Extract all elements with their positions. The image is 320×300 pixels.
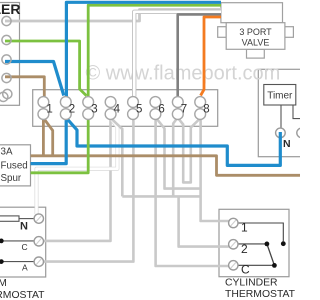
junction box (wiring centre) — [33, 90, 218, 127]
wire white: valve to junction terminal 5 — [134, 12, 221, 97]
cyl stat contact dot C — [272, 263, 277, 268]
boiler terminal 3 — [2, 55, 11, 64]
svg-text:N: N — [20, 221, 28, 233]
cyl stat contact dot 1 — [281, 241, 286, 246]
svg-text:3A: 3A — [1, 147, 13, 158]
timer terminal L (clipped) — [297, 128, 307, 138]
wire gray: junction terminal 7 to common rail — [173, 119, 177, 197]
terminal 8 — [195, 97, 206, 108]
svg-text:© www.flameport.com: © www.flameport.com — [86, 63, 281, 85]
wire blue: valve to junction terminal 2 — [66, 2, 221, 96]
cyl stat switch blade — [267, 244, 275, 266]
svg-text:N: N — [283, 138, 291, 150]
wire white: junction terminal 4 to room stat N — [37, 119, 118, 215]
svg-text:VALVE: VALVE — [242, 38, 270, 48]
wire blue: junction terminal 2 to timer N — [67, 119, 280, 166]
svg-text:Spur: Spur — [1, 173, 22, 184]
room stat contact line C — [1, 240, 34, 242]
terminal 3 — [83, 97, 94, 108]
junction terminals 1-8 — [38, 97, 206, 120]
boiler terminal 4 — [2, 73, 11, 82]
wire gray: junction terminal 8 to cylinder stat 1 — [201, 119, 229, 221]
svg-text:Fused: Fused — [1, 161, 28, 172]
wire blue: tip inside timer N terminal — [279, 132, 282, 139]
wire gray: common rail — [122, 195, 201, 198]
svg-text:Timer: Timer — [267, 91, 293, 102]
terminal 4 — [105, 97, 116, 108]
svg-text:1: 1 — [46, 104, 52, 116]
svg-text:ROOM: ROOM — [0, 278, 7, 289]
wire green: junction terminal 3 to spur — [31, 119, 89, 173]
wire dark gray: valve to junction terminal 7 — [178, 14, 221, 96]
wire orange: valve to junction terminal 8 — [201, 17, 221, 96]
3A fused spur box — [0, 145, 31, 186]
cylinder thermostat box — [219, 209, 289, 276]
terminal 6 — [150, 97, 161, 108]
wire brown: spur live rail to timer — [31, 156, 303, 176]
svg-text:THERMOSTAT: THERMOSTAT — [0, 290, 45, 300]
room stat contact dot A — [0, 259, 4, 264]
wire gray: link junction terminal 7 to terminal 8 — [179, 119, 199, 183]
cyl stat terminal C — [229, 261, 238, 270]
wire gray: rail to cylinder stat 2 — [179, 196, 229, 246]
room stat terminal A — [34, 257, 43, 266]
cyl stat contact line 1 — [238, 223, 283, 241]
wire green: boiler terminal 2 to junction terminal 3 — [5, 41, 87, 96]
svg-text:2: 2 — [69, 104, 75, 116]
boiler terminal 1 — [2, 16, 11, 25]
room stat element bar — [0, 216, 19, 221]
wire brown: boiler terminal 4 to junction terminal 1 — [5, 77, 44, 97]
svg-text:3 PORT: 3 PORT — [239, 27, 272, 37]
svg-text:1: 1 — [241, 221, 248, 235]
terminal 1 — [38, 97, 49, 108]
room thermostat box — [0, 207, 46, 277]
timer backplate box — [258, 69, 310, 156]
wire blue: junction terminal 2 to spur — [31, 119, 67, 163]
cylinder stat internals — [238, 223, 286, 268]
svg-text:8: 8 — [203, 104, 209, 116]
wire gray: junction terminal 5 to room stat A — [43, 119, 133, 261]
room stat internals — [0, 216, 34, 264]
junction terminal numbers — [46, 104, 209, 116]
svg-text:C: C — [22, 242, 28, 252]
svg-text:5: 5 — [136, 104, 142, 116]
wire gray: boiler terminal 1 to valve — [5, 10, 221, 22]
cyl stat terminal 2 — [229, 240, 238, 249]
wire blue: boiler terminal 3 to junction terminal 2 — [5, 62, 64, 96]
cyl stat contact dot 2 — [265, 242, 270, 247]
svg-text:THERMOSTAT: THERMOSTAT — [225, 289, 296, 300]
terminal 7 — [172, 97, 183, 108]
svg-text:CYLINDER: CYLINDER — [225, 277, 278, 288]
timer terminal N — [276, 128, 286, 138]
room stat terminal C — [34, 237, 43, 246]
svg-text:BOILER: BOILER — [0, 1, 20, 17]
boiler box — [0, 1, 20, 106]
wire gray: junction terminal 6 to cylinder stat C — [156, 119, 229, 266]
svg-text:4: 4 — [114, 104, 121, 116]
terminal 2 — [60, 97, 71, 108]
3 port valve body — [218, 3, 294, 58]
cyl stat terminal 1 — [229, 218, 238, 227]
wire gray: junction terminal 6 to cyl stat 1 feed — [157, 119, 201, 189]
wire timer N lead — [280, 105, 282, 128]
wire brown: junction terminal 1 to spur — [42, 119, 45, 156]
boiler terminal 2 — [2, 35, 11, 44]
wire green: valve to junction terminal 3 — [88, 5, 221, 96]
cyl stat contact line 2 — [238, 243, 267, 245]
svg-text:2: 2 — [241, 242, 248, 256]
timer unit box — [264, 85, 296, 106]
room stat contact dot C — [0, 239, 4, 244]
svg-text:6: 6 — [158, 104, 164, 116]
wire gray: junction terminal 4 to room stat C — [43, 119, 110, 241]
wire brown: junction terminal 1 to live rail — [44, 119, 53, 156]
svg-text:A: A — [22, 263, 28, 273]
room stat link bar to N — [19, 218, 34, 220]
room stat contact line A — [1, 261, 34, 263]
wire gray: junction terminal 4 to common rail — [112, 119, 123, 197]
boiler earth loop — [0, 92, 8, 101]
svg-text:7: 7 — [181, 104, 187, 116]
terminal 5 — [128, 97, 139, 108]
svg-text:3: 3 — [91, 104, 97, 116]
svg-text:C: C — [241, 263, 250, 277]
room stat terminal N — [34, 214, 43, 223]
boiler terminal 5 — [3, 89, 12, 98]
wire timer L lead — [293, 105, 310, 119]
cyl stat contact line C — [238, 264, 274, 266]
